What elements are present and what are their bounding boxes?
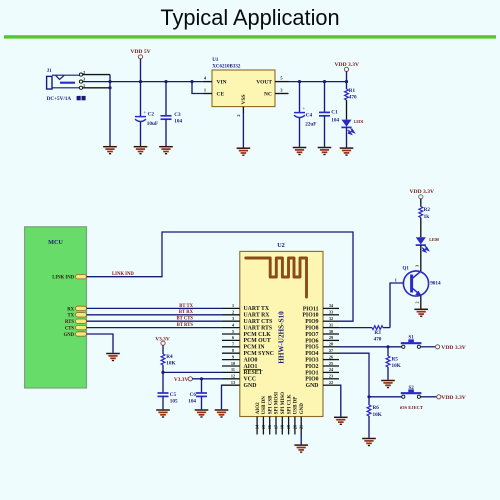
svg-text:470: 470 bbox=[349, 95, 357, 101]
svg-text:VDD 3.3V: VDD 3.3V bbox=[441, 345, 466, 351]
ground U1 VSS bbox=[237, 148, 251, 155]
svg-text:LED0: LED0 bbox=[429, 238, 439, 242]
resistor R6 bbox=[367, 405, 371, 416]
ground C4 bbox=[293, 148, 307, 155]
svg-text:20: 20 bbox=[292, 425, 297, 429]
ground Q1 bbox=[414, 309, 428, 316]
svg-text:UART RTS: UART RTS bbox=[244, 325, 273, 331]
svg-text:6: 6 bbox=[232, 335, 234, 340]
wire VSS to ground bbox=[242, 113, 244, 148]
wire C1 to ground bbox=[324, 116, 326, 147]
resistor R3 bbox=[372, 326, 383, 330]
wire PIO4 to S2 bbox=[339, 353, 402, 397]
svg-text:3: 3 bbox=[83, 77, 85, 82]
svg-text:TX: TX bbox=[67, 314, 74, 319]
svg-text:22uF: 22uF bbox=[305, 122, 316, 128]
power port VDD 5V circle bbox=[138, 55, 142, 59]
pin stub U1 CE bbox=[204, 93, 213, 95]
MCU pin labels bbox=[52, 276, 74, 338]
svg-text:21: 21 bbox=[299, 425, 304, 429]
ground R6 bbox=[362, 439, 376, 446]
ground C5 bbox=[156, 410, 170, 417]
wire BT CTS bbox=[87, 320, 223, 322]
svg-text:1: 1 bbox=[395, 278, 397, 283]
resistor R1 bbox=[345, 89, 349, 100]
U2 left pin stubs bbox=[222, 308, 240, 385]
wire R1 to LED1 bbox=[346, 100, 348, 120]
svg-text:25: 25 bbox=[329, 361, 333, 366]
svg-text:VDD 5V: VDD 5V bbox=[130, 49, 150, 55]
svg-text:PIO8: PIO8 bbox=[305, 326, 318, 332]
svg-text:VOUT: VOUT bbox=[256, 80, 272, 86]
ground U2 bottom bbox=[294, 445, 308, 452]
svg-text:SPI MISO: SPI MISO bbox=[281, 392, 286, 414]
wire J1 pin1 to ground net bbox=[83, 87, 110, 89]
U2 bottom pin numbers 14-21 bbox=[255, 424, 304, 429]
svg-text:RESET: RESET bbox=[244, 370, 263, 376]
LED LED1 bbox=[341, 120, 354, 135]
connector J1 bbox=[47, 73, 83, 89]
wire LED0 to Q1 collector bbox=[420, 245, 422, 271]
svg-text:PCM IN: PCM IN bbox=[244, 345, 266, 351]
wire BT RTS bbox=[87, 327, 223, 329]
pin stub U1 VSS bbox=[242, 107, 244, 113]
svg-text:34: 34 bbox=[329, 303, 334, 308]
svg-text:C1: C1 bbox=[331, 110, 338, 116]
capacitor C3 bbox=[161, 116, 172, 119]
svg-text:VCC: VCC bbox=[244, 377, 257, 383]
svg-text:V3.3V: V3.3V bbox=[174, 377, 189, 383]
svg-text:USB DN: USB DN bbox=[262, 396, 267, 415]
transistor Q1 9014 bbox=[403, 271, 428, 296]
pin stub U1 VIN bbox=[204, 81, 213, 83]
pin stub U1 NC bbox=[275, 93, 289, 95]
svg-text:104: 104 bbox=[331, 117, 339, 123]
svg-text:PIO5: PIO5 bbox=[305, 345, 318, 351]
wire S2 to VDD bbox=[421, 396, 437, 398]
wire junction to R6 bbox=[368, 397, 370, 405]
svg-text:+: + bbox=[302, 106, 305, 112]
svg-text:PIO4: PIO4 bbox=[305, 351, 318, 357]
svg-text:GND: GND bbox=[64, 333, 75, 338]
junction VDD5V/C2 bbox=[139, 80, 142, 83]
svg-text:9014: 9014 bbox=[430, 280, 441, 286]
svg-text:10K: 10K bbox=[392, 363, 401, 369]
wire PIO8 to R3 bbox=[339, 327, 372, 329]
capacitor C1 bbox=[319, 112, 330, 115]
power port VDD 3.3V at S1 bbox=[436, 345, 440, 349]
svg-text:PCM SYNC: PCM SYNC bbox=[244, 351, 274, 357]
svg-text:SPI CSB: SPI CSB bbox=[268, 395, 273, 414]
regulator U1 XC6210B332 bbox=[212, 70, 275, 107]
svg-text:PIO6: PIO6 bbox=[305, 338, 318, 344]
svg-text:J1: J1 bbox=[47, 69, 53, 74]
wire VDD3.3 to R1 bbox=[346, 71, 348, 89]
svg-text:15: 15 bbox=[261, 425, 266, 429]
svg-text:470: 470 bbox=[374, 336, 382, 342]
wire R5 to ground bbox=[387, 367, 389, 380]
wire C6 to ground bbox=[201, 396, 203, 409]
svg-text:+: + bbox=[143, 110, 146, 116]
U2 right pin names bbox=[302, 306, 318, 389]
svg-text:32: 32 bbox=[329, 316, 333, 321]
junction VDD3.3 rail bbox=[345, 80, 348, 83]
svg-text:31: 31 bbox=[329, 322, 333, 327]
svg-text:Q1: Q1 bbox=[403, 266, 410, 271]
MCU pin CTS bbox=[76, 325, 87, 329]
svg-text:XC6210B332: XC6210B332 bbox=[212, 65, 241, 70]
svg-text:PCM CLK: PCM CLK bbox=[244, 332, 272, 338]
capacitor C6 bbox=[196, 393, 207, 396]
svg-text:R1: R1 bbox=[349, 88, 356, 94]
svg-text:10K: 10K bbox=[166, 361, 175, 367]
wire junction to R5 bbox=[387, 347, 389, 356]
wire VDD 5V to rail bbox=[140, 59, 142, 82]
svg-text:1: 1 bbox=[232, 303, 234, 308]
wire C5 to ground bbox=[162, 396, 164, 409]
wire 3.3V rail bbox=[289, 81, 347, 83]
MCU pin TX bbox=[76, 313, 87, 317]
svg-text:C5: C5 bbox=[170, 392, 177, 398]
wire Q1 emitter to ground bbox=[420, 296, 422, 309]
ground U2 GND13 bbox=[215, 410, 229, 417]
svg-text:UART TX: UART TX bbox=[244, 306, 270, 312]
wire C3 to ground bbox=[165, 119, 167, 146]
svg-text:GND: GND bbox=[244, 383, 257, 389]
wire VDD to R2 bbox=[420, 199, 422, 207]
ground C6 bbox=[195, 410, 209, 417]
wire BT RX bbox=[87, 314, 223, 316]
svg-text:RX: RX bbox=[67, 307, 74, 312]
pin stub U1 VOUT bbox=[275, 81, 289, 83]
svg-text:26: 26 bbox=[329, 354, 333, 359]
svg-text:PIO11: PIO11 bbox=[303, 306, 319, 312]
MCU pin GND bbox=[76, 332, 87, 336]
U1 pin numbers bbox=[204, 76, 283, 117]
switch S1 bbox=[401, 336, 422, 349]
svg-text:BT RX: BT RX bbox=[179, 310, 194, 315]
junction J1 pin1 bbox=[108, 86, 111, 89]
wire to C6 bbox=[201, 379, 203, 393]
wire J1 ground drop bbox=[109, 75, 111, 146]
svg-text:C4: C4 bbox=[306, 112, 313, 118]
svg-text:5: 5 bbox=[232, 329, 234, 334]
U2 bottom pin names bbox=[256, 392, 305, 414]
svg-text:C3: C3 bbox=[174, 112, 181, 118]
wire VCC net bbox=[192, 378, 222, 380]
junction R4/RESET bbox=[161, 371, 164, 374]
MCU block bbox=[25, 227, 87, 388]
svg-text:3: 3 bbox=[232, 316, 234, 321]
wire C2 to ground bbox=[140, 122, 142, 146]
svg-text:33: 33 bbox=[329, 310, 333, 315]
svg-text:LINK IND: LINK IND bbox=[52, 276, 74, 281]
svg-text:19: 19 bbox=[286, 425, 291, 429]
svg-text:UART CTS: UART CTS bbox=[244, 319, 273, 325]
svg-text:R3: R3 bbox=[374, 330, 381, 336]
svg-text:104: 104 bbox=[188, 398, 196, 404]
wire rail to C1 bbox=[324, 82, 326, 113]
svg-text:RTS: RTS bbox=[65, 320, 74, 325]
svg-text:PIO0: PIO0 bbox=[305, 377, 318, 383]
svg-text:R2: R2 bbox=[424, 207, 431, 213]
svg-text:MCU: MCU bbox=[48, 239, 63, 246]
svg-text:24: 24 bbox=[329, 367, 334, 372]
U2 right pin stubs bbox=[323, 308, 339, 385]
junction VCC/C6 bbox=[200, 377, 203, 380]
wire R2 to LED0 bbox=[420, 218, 422, 238]
junction C4 bbox=[298, 80, 301, 83]
svg-text:VDD 3.3V: VDD 3.3V bbox=[441, 395, 466, 401]
svg-text:28: 28 bbox=[329, 342, 333, 347]
svg-text:30: 30 bbox=[329, 329, 333, 334]
junction R6 bbox=[367, 395, 370, 398]
power port VDD 3.3V at S2 bbox=[437, 395, 441, 399]
junction CE branch bbox=[190, 80, 193, 83]
U2 bottom pin stubs bbox=[257, 417, 301, 435]
junction J1 ground / rail bbox=[108, 80, 111, 83]
svg-text:2: 2 bbox=[414, 302, 419, 304]
svg-text:105: 105 bbox=[170, 398, 178, 404]
LED LED0 bbox=[416, 237, 429, 252]
svg-text:5: 5 bbox=[280, 76, 282, 81]
svg-text:GND: GND bbox=[306, 383, 319, 389]
svg-text:LINK IND: LINK IND bbox=[112, 272, 134, 277]
U2 PCB antenna trace bbox=[246, 258, 307, 297]
svg-text:Typical Application: Typical Application bbox=[160, 5, 339, 30]
svg-text:VIN: VIN bbox=[217, 80, 227, 86]
svg-text:PIO2: PIO2 bbox=[305, 364, 318, 370]
svg-text:PCM OUT: PCM OUT bbox=[244, 338, 271, 344]
svg-text:3: 3 bbox=[414, 265, 419, 267]
U2 left pin names bbox=[244, 306, 274, 389]
junction C1 bbox=[323, 80, 326, 83]
wire RESET net bbox=[163, 371, 222, 373]
svg-text:3: 3 bbox=[280, 88, 282, 93]
svg-text:12: 12 bbox=[231, 374, 235, 379]
svg-text:NC: NC bbox=[264, 91, 272, 97]
svg-text:11: 11 bbox=[231, 367, 235, 372]
resistor R4 bbox=[161, 354, 165, 365]
ground U2 GND22 bbox=[334, 417, 348, 424]
wire R3 to base vertical bbox=[383, 327, 390, 329]
svg-text:22: 22 bbox=[329, 380, 333, 385]
svg-text:23: 23 bbox=[329, 374, 333, 379]
power port V3.3V upper circle bbox=[161, 341, 165, 345]
svg-text:PIO10: PIO10 bbox=[302, 313, 318, 319]
svg-text:GND: GND bbox=[300, 403, 305, 415]
svg-text:S2: S2 bbox=[408, 386, 414, 391]
svg-text:BT RTS: BT RTS bbox=[177, 323, 194, 328]
svg-text:13: 13 bbox=[231, 380, 235, 385]
module U2 HHW-U2HS-S10 bbox=[240, 251, 323, 416]
svg-text:VSS: VSS bbox=[241, 94, 247, 104]
wire V3.3V to R4 bbox=[162, 345, 164, 354]
svg-text:2: 2 bbox=[232, 310, 234, 315]
wire U2 bottom GND bbox=[300, 435, 302, 445]
svg-text:9: 9 bbox=[232, 354, 234, 359]
wire BT TX bbox=[87, 307, 223, 309]
junction R5 bbox=[386, 345, 389, 348]
svg-text:R5: R5 bbox=[392, 356, 399, 362]
svg-text:7: 7 bbox=[232, 342, 234, 347]
svg-text:PIO9: PIO9 bbox=[305, 319, 318, 325]
svg-text:8: 8 bbox=[232, 348, 234, 353]
svg-text:S1: S1 bbox=[408, 336, 414, 341]
capacitor C2 bbox=[135, 110, 146, 122]
wire C4 to ground bbox=[299, 118, 301, 147]
wire rail to C3 bbox=[165, 82, 167, 116]
wire rail to C2 bbox=[140, 82, 142, 117]
U2 right pin numbers 34-22 bbox=[329, 303, 334, 385]
wire U2 GND13 to ground bbox=[221, 385, 224, 409]
power port V3.3V lower circle bbox=[188, 377, 192, 381]
capacitor C5 bbox=[158, 393, 169, 396]
svg-text:16: 16 bbox=[267, 425, 272, 429]
svg-text:AIO2: AIO2 bbox=[256, 402, 261, 414]
svg-text:PIO7: PIO7 bbox=[305, 332, 318, 338]
svg-text:1: 1 bbox=[204, 88, 206, 93]
MCU pin RTS bbox=[76, 319, 87, 323]
svg-text:R4: R4 bbox=[166, 354, 173, 360]
MCU pin RX bbox=[76, 306, 87, 310]
label DC+5V/1A input bbox=[47, 96, 86, 102]
power port VDD 3.3V circle bbox=[344, 67, 348, 71]
junction C3 bbox=[164, 80, 167, 83]
svg-text:BT CTS: BT CTS bbox=[177, 317, 194, 322]
ground LED1 bbox=[340, 148, 354, 155]
wire MCU GND to ground bbox=[87, 334, 114, 353]
U2 RESET overline bbox=[244, 369, 262, 371]
capacitor C4 bbox=[294, 106, 305, 118]
wire S1 to VDD bbox=[421, 346, 436, 348]
svg-text:PIO1: PIO1 bbox=[305, 370, 318, 376]
svg-text:SPI MOSI: SPI MOSI bbox=[275, 392, 280, 414]
svg-text:DC+5V/1A: DC+5V/1A bbox=[47, 96, 72, 102]
svg-text:U1: U1 bbox=[212, 58, 219, 63]
svg-text:U2: U2 bbox=[277, 242, 285, 249]
wire rail to C4 bbox=[299, 82, 301, 113]
wire U2 GND22 to ground bbox=[339, 385, 341, 416]
wire PIO5 to S1 bbox=[339, 346, 402, 348]
ground C3 bbox=[159, 147, 173, 154]
svg-text:29: 29 bbox=[329, 335, 333, 340]
svg-text:AIO0: AIO0 bbox=[244, 357, 258, 363]
wire LINK IND to U2 PIO9 bbox=[87, 232, 354, 321]
svg-text:10K: 10K bbox=[373, 412, 382, 418]
svg-text:18: 18 bbox=[280, 425, 285, 429]
U2 left pin numbers 1-13 bbox=[231, 303, 235, 385]
power port VDD 3.3V right circle bbox=[419, 195, 423, 199]
Q1 pin numbers bbox=[395, 265, 420, 304]
svg-text:17: 17 bbox=[273, 425, 278, 429]
svg-text:USB DP: USB DP bbox=[294, 397, 299, 415]
wire J1 pin2 to ground net bbox=[83, 74, 110, 76]
svg-text:R6: R6 bbox=[373, 405, 380, 411]
resistor R5 bbox=[386, 356, 390, 367]
switch S2 bbox=[401, 386, 422, 398]
svg-text:C2: C2 bbox=[148, 111, 155, 117]
svg-text:HHW-U2HS-S10: HHW-U2HS-S10 bbox=[278, 311, 286, 364]
svg-text:104: 104 bbox=[174, 119, 182, 125]
svg-text:10uF: 10uF bbox=[147, 121, 158, 127]
svg-text:PIO3: PIO3 bbox=[305, 358, 318, 364]
wire to CE pin bbox=[192, 82, 204, 94]
resistor R2 bbox=[419, 207, 423, 218]
svg-text:27: 27 bbox=[329, 348, 333, 353]
svg-text:AIO1: AIO1 bbox=[244, 364, 258, 370]
MCU pin LINK IND bbox=[76, 275, 87, 279]
svg-text:4: 4 bbox=[204, 76, 207, 81]
svg-text:BT TX: BT TX bbox=[179, 304, 193, 309]
wire +5V rail bbox=[83, 81, 204, 83]
svg-text:2: 2 bbox=[236, 114, 241, 116]
svg-text:10: 10 bbox=[231, 361, 235, 366]
J1 pin numbers 2 3 1 bbox=[83, 70, 85, 88]
wire LED1 to ground bbox=[346, 127, 348, 147]
ground C2 bbox=[134, 147, 148, 154]
svg-text:CE: CE bbox=[217, 91, 225, 97]
wire Q1 base bbox=[390, 283, 404, 328]
svg-text:4: 4 bbox=[232, 322, 235, 327]
ground J1 bbox=[103, 147, 117, 154]
svg-text:C6: C6 bbox=[190, 392, 197, 398]
svg-text:1k: 1k bbox=[424, 214, 430, 220]
svg-text:UART RX: UART RX bbox=[244, 313, 271, 319]
svg-text:SPI CLK: SPI CLK bbox=[287, 394, 292, 414]
ground MCU bbox=[106, 354, 120, 361]
wire R4 to C5 bbox=[162, 365, 164, 393]
svg-text:VDD 3.3V: VDD 3.3V bbox=[410, 189, 435, 195]
wire R6 to ground bbox=[368, 416, 370, 438]
ground C1 bbox=[318, 148, 332, 155]
svg-text:CTS: CTS bbox=[65, 327, 75, 332]
svg-text:iOS EJECT: iOS EJECT bbox=[400, 405, 423, 410]
green divider line bbox=[4, 35, 496, 38]
ground R5 bbox=[381, 381, 395, 388]
svg-text:LED1: LED1 bbox=[354, 120, 364, 124]
